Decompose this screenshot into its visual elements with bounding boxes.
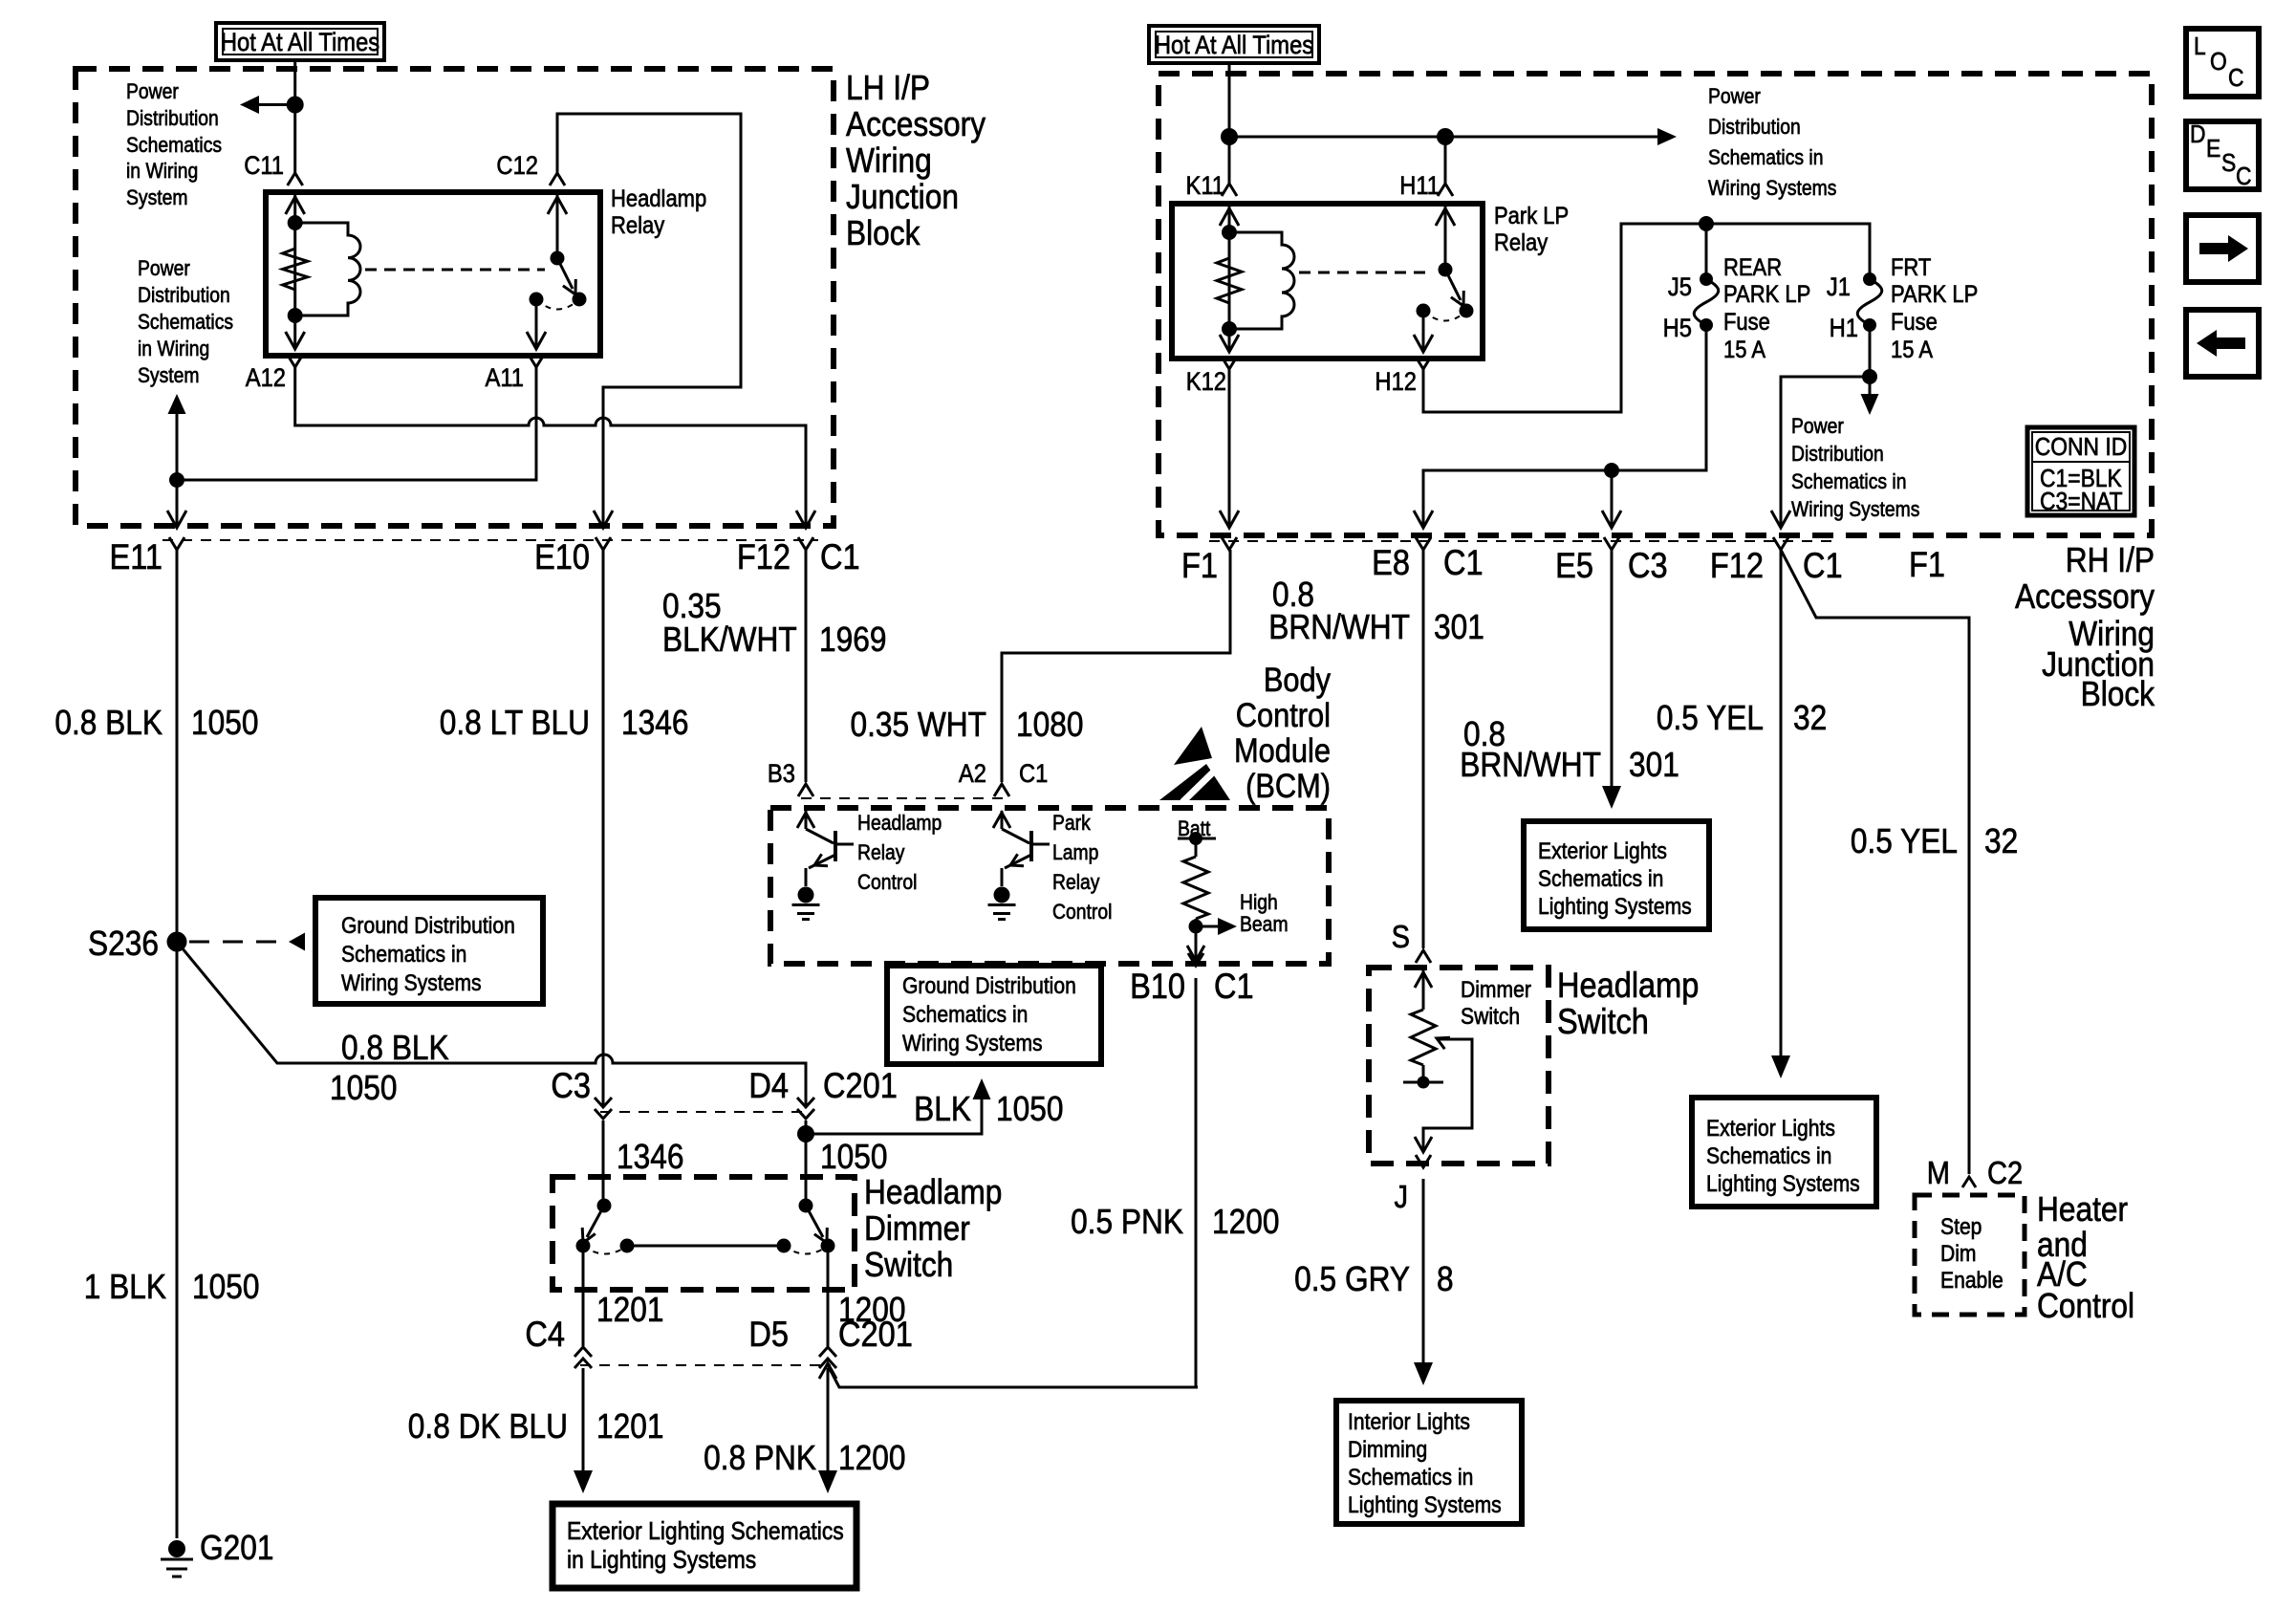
connector E8 [1416, 537, 1431, 550]
transistor park lamp relay control [1002, 829, 1029, 843]
dimmer pole right [799, 1199, 813, 1213]
svg-text:O: O [2210, 49, 2227, 76]
LH block C1 connector dashed line [162, 539, 818, 541]
svg-text:PARK LP: PARK LP [1891, 281, 1978, 308]
svg-text:Wiring Systems: Wiring Systems [1791, 498, 1919, 521]
svg-text:Relay: Relay [857, 841, 905, 864]
connector B10 [1188, 953, 1203, 966]
svg-text:Accessory: Accessory [2015, 577, 2155, 616]
svg-text:CONN ID: CONN ID [2035, 434, 2128, 462]
svg-text:Enable: Enable [1940, 1268, 2004, 1294]
svg-text:Power: Power [126, 80, 179, 103]
BCM pin A2 arrow [1001, 811, 1004, 829]
svg-text:E5: E5 [1555, 546, 1593, 585]
connector C4 inline [574, 1359, 592, 1368]
park relay movement arc [1423, 311, 1466, 321]
svg-text:A11: A11 [485, 364, 524, 393]
svg-text:Park: Park [1052, 812, 1091, 835]
svg-text:F1: F1 [1181, 546, 1218, 585]
svg-text:S: S [1392, 919, 1410, 954]
svg-text:Distribution: Distribution [138, 284, 230, 307]
svg-text:C12: C12 [496, 152, 538, 181]
wire H1 down [1869, 325, 1872, 377]
connector line C201 upper dashed [600, 1111, 809, 1113]
svg-text:C1: C1 [1214, 967, 1254, 1006]
svg-text:Headlamp: Headlamp [1557, 966, 1699, 1005]
arrow power distribution reference right [1445, 136, 1657, 139]
park relay contact left [1417, 304, 1431, 318]
svg-text:1346: 1346 [617, 1138, 683, 1176]
park relay output to H12 [1422, 311, 1425, 351]
connector J [1416, 1155, 1431, 1167]
wire F1 to BCM A2 [1002, 550, 1230, 782]
ground at transistor 2 [994, 887, 1010, 903]
BCM batt resistor [1195, 838, 1198, 857]
exterior lights box (right) [1692, 1098, 1876, 1207]
dashed reference link from S236 [189, 941, 289, 944]
svg-text:Ground Distribution: Ground Distribution [341, 913, 515, 939]
dimmer contact right [821, 1239, 835, 1253]
exterior lighting schematics box [552, 1504, 856, 1588]
wire A11 to E11 junction [177, 367, 536, 480]
dimmer bar dot right [777, 1239, 791, 1253]
BCM pin B10 arrow [1195, 926, 1198, 959]
connector C3 inline [595, 1098, 612, 1107]
svg-text:0.8 LT BLU: 0.8 LT BLU [440, 704, 590, 742]
svg-text:BLK/WHT: BLK/WHT [662, 620, 797, 659]
svg-text:Schematics in: Schematics in [1791, 470, 1906, 493]
svg-text:Body: Body [1264, 661, 1332, 698]
body control module dashed box [770, 808, 1329, 964]
svg-text:1050: 1050 [996, 1090, 1063, 1128]
svg-text:D5: D5 [748, 1315, 789, 1354]
svg-text:C1: C1 [1803, 546, 1843, 585]
svg-text:Distribution: Distribution [1708, 116, 1801, 139]
svg-text:E8: E8 [1372, 543, 1410, 582]
svg-text:Wiring Systems: Wiring Systems [1708, 177, 1836, 200]
fuse FRT PARK LP [1863, 272, 1876, 286]
svg-text:Relay: Relay [1052, 871, 1100, 894]
svg-text:Wiring: Wiring [846, 141, 932, 180]
wire S236 to D4 with hop [177, 942, 806, 1105]
svg-text:1200: 1200 [838, 1439, 905, 1477]
svg-text:Schematics in: Schematics in [1348, 1465, 1473, 1490]
svg-text:Dimmer: Dimmer [1461, 977, 1531, 1003]
svg-text:Lamp: Lamp [1052, 841, 1098, 864]
arrow power distribution reference up [176, 414, 179, 480]
svg-text:0.5 YEL: 0.5 YEL [1851, 822, 1958, 860]
svg-text:Headlamp: Headlamp [857, 812, 942, 835]
BCM connector dashed line [801, 797, 1007, 799]
svg-text:32: 32 [1793, 699, 1827, 737]
svg-text:1050: 1050 [191, 704, 258, 742]
svg-text:A2: A2 [959, 760, 986, 789]
dimmer pole left [597, 1199, 612, 1213]
relay pin C11 with arrows [293, 195, 296, 348]
rheostat wiper [1423, 1039, 1472, 1150]
svg-text:C: C [2228, 65, 2244, 93]
junction below D4 [797, 1125, 814, 1142]
svg-text:F1: F1 [1909, 545, 1945, 584]
ESD sensitive symbol [1174, 727, 1212, 765]
svg-text:M: M [1927, 1155, 1950, 1190]
svg-text:(BCM): (BCM) [1245, 767, 1331, 804]
relay resistor [283, 249, 308, 290]
ground G201 symbol [168, 1540, 185, 1557]
dimmer bar [627, 1245, 784, 1248]
connector D4 inline [797, 1098, 814, 1107]
connector F1 [1222, 537, 1237, 550]
legend box arrow left [2186, 310, 2259, 377]
svg-text:1201: 1201 [596, 1291, 663, 1329]
arrow from BCM B10 joins D5 [828, 1365, 1198, 1387]
svg-text:BRN/WHT: BRN/WHT [1460, 746, 1601, 784]
svg-text:Dim: Dim [1940, 1241, 1977, 1267]
svg-text:REAR: REAR [1723, 254, 1782, 281]
wire C12 loop to E10 [557, 114, 741, 526]
park relay dashed link [1299, 272, 1430, 274]
svg-text:G201: G201 [200, 1529, 273, 1567]
svg-text:K12: K12 [1186, 368, 1226, 397]
svg-text:Power: Power [1791, 415, 1844, 438]
svg-text:Park LP: Park LP [1494, 203, 1569, 229]
svg-text:Schematics in: Schematics in [1706, 1143, 1831, 1169]
svg-text:A12: A12 [246, 364, 286, 393]
svg-text:Accessory: Accessory [846, 105, 986, 143]
wire dimmer to D5 [827, 1246, 830, 1346]
svg-text:E: E [2206, 136, 2220, 163]
park relay coil [1229, 232, 1294, 329]
wire E5 branch to border [1611, 470, 1614, 526]
wire J to interior lights [1422, 1179, 1425, 1364]
arrow high beam [1196, 925, 1218, 928]
legend box DESC [2186, 121, 2259, 189]
park relay contact right [1460, 304, 1474, 318]
relay switch movement dashed arc [536, 299, 579, 310]
svg-text:1050: 1050 [192, 1268, 259, 1306]
wire C3 into dimmer switch [602, 1120, 605, 1206]
connector H11 [1438, 184, 1453, 196]
connector F12 LH [798, 537, 813, 550]
svg-text:B10: B10 [1130, 967, 1185, 1006]
svg-text:Dimming: Dimming [1348, 1437, 1427, 1463]
park relay switch pin H11 [1444, 207, 1447, 268]
svg-text:Schematics in: Schematics in [1708, 146, 1823, 169]
svg-text:Ground Distribution: Ground Distribution [902, 973, 1076, 999]
CONN ID legend box [2027, 427, 2134, 515]
junction park coil top [1222, 225, 1237, 240]
svg-text:15 A: 15 A [1723, 337, 1765, 363]
svg-text:H5: H5 [1663, 315, 1692, 343]
svg-text:Headlamp: Headlamp [864, 1173, 1002, 1211]
svg-text:H12: H12 [1375, 368, 1417, 397]
svg-text:Control: Control [1052, 901, 1112, 924]
RH I/P junction block dashed outline [1159, 74, 2152, 535]
ground distribution reference box (left) [315, 898, 543, 1004]
connector B3 [798, 784, 813, 796]
svg-text:Control: Control [2037, 1287, 2134, 1325]
svg-text:Wiring Systems: Wiring Systems [341, 970, 482, 996]
dimmer arm right [806, 1206, 823, 1237]
wire battery feed to C11 [293, 60, 296, 173]
svg-text:Power: Power [138, 257, 190, 280]
svg-text:0.8 BLK: 0.8 BLK [54, 704, 162, 742]
junction E5 branch [1604, 463, 1619, 478]
svg-text:J5: J5 [1668, 273, 1692, 302]
svg-text:Exterior Lights: Exterior Lights [1538, 838, 1667, 864]
wire A12 to F12 with hops [295, 367, 806, 526]
headlamp switch input arrow [1422, 970, 1425, 1010]
svg-text:Wiring Systems: Wiring Systems [902, 1031, 1043, 1056]
svg-text:Relay: Relay [611, 212, 664, 239]
wire to F12 RH [1781, 377, 1870, 526]
park relay pin K11 arrows [1228, 207, 1231, 351]
svg-text:Exterior Lighting Schematics: Exterior Lighting Schematics [567, 1518, 844, 1546]
svg-text:D4: D4 [748, 1066, 789, 1105]
svg-text:Module: Module [1234, 731, 1331, 769]
svg-text:C1: C1 [820, 537, 860, 577]
wire E11 down to border [176, 480, 179, 526]
svg-text:Distribution: Distribution [126, 107, 219, 130]
exterior lights box (center) [1524, 821, 1709, 929]
wire F1 to heater AC control [1781, 550, 1969, 1174]
svg-text:Relay: Relay [1494, 229, 1548, 256]
connector A11 [529, 355, 544, 367]
svg-text:1201: 1201 [596, 1407, 663, 1446]
wire F12 RH to exterior lights [1780, 550, 1783, 1055]
wire H11 to pin [1444, 137, 1447, 184]
dimmer bar dot left [620, 1239, 635, 1253]
svg-text:1050: 1050 [820, 1138, 887, 1176]
svg-text:RH I/P: RH I/P [2066, 541, 2155, 579]
wire feed to H11 [1229, 136, 1445, 139]
park relay pivot [1439, 263, 1453, 277]
connector K11 [1222, 184, 1237, 196]
svg-text:Distribution: Distribution [1791, 443, 1884, 466]
park relay resistor [1217, 258, 1242, 303]
relay switch output to A11 [535, 299, 538, 348]
headlamp dimmer switch dashed box [552, 1177, 855, 1290]
svg-text:J1: J1 [1827, 273, 1851, 302]
svg-text:Junction: Junction [846, 178, 959, 216]
svg-text:BRN/WHT: BRN/WHT [1268, 608, 1410, 646]
junction high beam [1189, 920, 1203, 934]
svg-text:Lighting Systems: Lighting Systems [1706, 1171, 1860, 1197]
connector S [1416, 950, 1431, 963]
connector line C201 lower dashed [580, 1364, 831, 1366]
svg-text:Interior Lights: Interior Lights [1348, 1409, 1470, 1435]
svg-text:C1: C1 [1443, 543, 1484, 582]
connector C12 [550, 173, 565, 185]
wire H5 to E8/E5 [1423, 325, 1706, 526]
junction rear fuse feed [1699, 216, 1714, 231]
svg-text:C1: C1 [1019, 760, 1048, 789]
relay switch arm [557, 258, 573, 289]
svg-text:BLK: BLK [914, 1090, 971, 1128]
svg-text:Control: Control [857, 871, 917, 894]
connector F12 RH [1773, 537, 1788, 550]
svg-text:C: C [2236, 163, 2252, 191]
svg-text:B3: B3 [768, 760, 795, 789]
svg-text:Block: Block [2081, 675, 2155, 713]
svg-text:C3=NAT: C3=NAT [2040, 489, 2123, 516]
wire BLK 1050 branch to ground reference [806, 1099, 982, 1134]
relay coil-switch dashed link [365, 269, 545, 272]
svg-text:S: S [2221, 150, 2236, 178]
svg-text:Power: Power [1708, 85, 1761, 108]
wire E11 to G201 [176, 550, 179, 1538]
svg-text:0.5 GRY: 0.5 GRY [1294, 1260, 1410, 1298]
LH I/P junction block dashed outline [76, 69, 834, 526]
connector E10 [596, 537, 611, 550]
wire B10 to dimmer D5 [839, 978, 1196, 1387]
svg-text:in Lighting Systems: in Lighting Systems [567, 1547, 756, 1575]
svg-text:1 BLK: 1 BLK [84, 1268, 167, 1306]
svg-text:301: 301 [1629, 746, 1679, 784]
rheostat end bar [1403, 1081, 1443, 1084]
svg-text:Control: Control [1236, 696, 1331, 733]
svg-text:Beam: Beam [1240, 913, 1289, 936]
svg-text:C3: C3 [551, 1066, 591, 1105]
junction relay coil bottom [288, 308, 303, 323]
svg-text:1346: 1346 [621, 704, 688, 742]
svg-text:System: System [138, 364, 200, 387]
svg-text:Dimmer: Dimmer [864, 1209, 970, 1248]
ground distribution reference box (middle) [887, 966, 1101, 1064]
wire E10 to C3 [602, 550, 605, 1105]
svg-text:E11: E11 [109, 537, 162, 577]
dimmer contact left [576, 1239, 591, 1253]
svg-text:Exterior Lights: Exterior Lights [1706, 1116, 1835, 1142]
svg-text:Schematics in: Schematics in [1538, 866, 1663, 892]
svg-text:F12: F12 [1710, 546, 1764, 585]
svg-text:Schematics in: Schematics in [902, 1002, 1028, 1028]
svg-text:System: System [126, 186, 188, 209]
svg-text:Block: Block [846, 214, 920, 252]
ground at transistor 1 [798, 887, 814, 903]
park lp relay box [1172, 204, 1483, 359]
legend box arrow right [2186, 215, 2259, 282]
svg-text:H11: H11 [1399, 172, 1440, 201]
svg-text:Switch: Switch [1557, 1002, 1649, 1041]
svg-text:in Wiring: in Wiring [138, 337, 209, 360]
svg-text:Fuse: Fuse [1891, 309, 1938, 336]
dimmer movement arc right [784, 1246, 828, 1254]
svg-text:Step: Step [1940, 1214, 1982, 1240]
svg-text:Schematics: Schematics [138, 311, 233, 334]
wire H12 to fuse feed [1423, 224, 1870, 412]
relay switch contact right [573, 293, 587, 307]
junction K11 feed [1221, 128, 1238, 145]
svg-text:C201: C201 [838, 1315, 913, 1354]
svg-text:1050: 1050 [330, 1069, 397, 1107]
svg-text:C201: C201 [823, 1066, 898, 1105]
svg-text:C11: C11 [244, 152, 284, 181]
interior lights dimming box [1336, 1401, 1522, 1524]
svg-text:D: D [2190, 121, 2206, 149]
relay switch pin C12 [556, 195, 559, 256]
arrow power distribution reference (fuse) [1869, 377, 1872, 394]
svg-text:High: High [1240, 891, 1278, 914]
power label box Hot At All Times (right) [1149, 26, 1319, 63]
dimmer arm left [587, 1206, 604, 1237]
svg-text:0.35 WHT: 0.35 WHT [850, 706, 986, 744]
svg-text:8: 8 [1437, 1260, 1454, 1298]
svg-text:1080: 1080 [1016, 706, 1083, 744]
svg-text:LH I/P: LH I/P [846, 69, 930, 107]
park relay arm [1445, 270, 1461, 300]
svg-text:Hot At All Times: Hot At All Times [1155, 32, 1313, 60]
connector H12 [1416, 357, 1431, 369]
arrow power distribution reference left [259, 103, 295, 106]
svg-text:PARK LP: PARK LP [1723, 281, 1810, 308]
svg-text:32: 32 [1984, 822, 2018, 860]
splice S236 [167, 932, 187, 952]
svg-text:J: J [1394, 1179, 1408, 1214]
svg-text:1200: 1200 [1212, 1203, 1279, 1241]
headlamp relay box [266, 192, 600, 356]
dimmer movement arc left [583, 1246, 627, 1254]
junction E11 node [169, 472, 184, 488]
wire dimmer to C4 [582, 1246, 585, 1346]
connector A12 [288, 355, 303, 367]
svg-text:Heater: Heater [2037, 1190, 2128, 1229]
connector E5 [1604, 537, 1619, 550]
svg-text:15 A: 15 A [1891, 337, 1933, 363]
relay switch contact left [530, 293, 544, 307]
svg-text:Hot At All Times: Hot At All Times [221, 29, 379, 57]
svg-text:0.8 BLK: 0.8 BLK [341, 1029, 449, 1067]
connector K12 [1222, 357, 1237, 369]
wire C4 to exterior lighting [582, 1368, 585, 1472]
wire F12 to BCM B3 [805, 550, 808, 782]
connector C11 [288, 173, 303, 185]
svg-text:0.8 PNK: 0.8 PNK [704, 1439, 816, 1477]
headlamp switch dashed box [1369, 968, 1549, 1164]
svg-text:1969: 1969 [819, 620, 886, 659]
svg-text:FRT: FRT [1891, 254, 1931, 281]
junction park coil bottom [1222, 321, 1237, 337]
connector E11 [169, 537, 184, 550]
junction F12 branch (right) [1862, 369, 1877, 384]
svg-text:Switch: Switch [864, 1246, 953, 1284]
svg-text:L: L [2194, 33, 2206, 61]
wire D4 into dimmer switch [805, 1120, 808, 1206]
svg-text:0.8 DK BLU: 0.8 DK BLU [408, 1407, 568, 1446]
legend box LOC [2186, 29, 2259, 97]
wire D5 to exterior lighting [827, 1368, 830, 1472]
wire battery feed to K11 [1228, 63, 1231, 184]
junction H11 feed [1437, 128, 1454, 145]
svg-text:E10: E10 [534, 537, 590, 577]
svg-text:Schematics in: Schematics in [341, 942, 466, 968]
svg-text:S236: S236 [88, 925, 159, 963]
svg-text:H1: H1 [1830, 315, 1858, 343]
connector M C2 [1962, 1177, 1976, 1187]
fuse REAR PARK LP [1700, 272, 1713, 286]
svg-text:C2: C2 [1987, 1155, 2023, 1190]
svg-text:K11: K11 [1185, 172, 1224, 201]
connector A2 [994, 784, 1009, 796]
svg-text:Fuse: Fuse [1723, 309, 1770, 336]
svg-text:Headlamp: Headlamp [611, 185, 706, 212]
svg-text:C4: C4 [525, 1315, 565, 1354]
BCM pin B3 arrow [805, 811, 808, 829]
svg-text:301: 301 [1434, 608, 1484, 646]
svg-text:Lighting Systems: Lighting Systems [1348, 1492, 1502, 1518]
svg-text:in Wiring: in Wiring [126, 160, 198, 183]
step dim enable dashed box [1915, 1195, 2025, 1315]
